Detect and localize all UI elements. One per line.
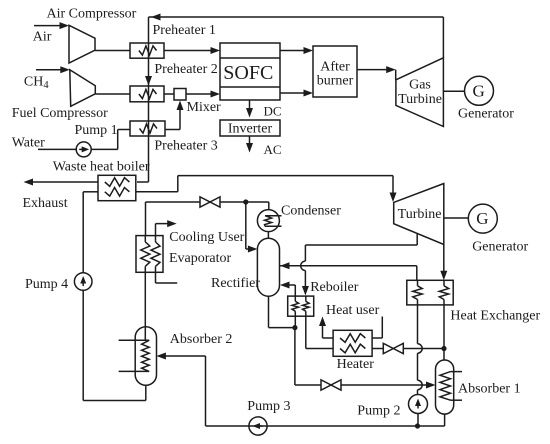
svg-text:Pump 1: Pump 1: [75, 123, 118, 138]
svg-text:Exhaust: Exhaust: [23, 196, 68, 211]
svg-text:burner: burner: [317, 74, 354, 89]
svg-text:Generator: Generator: [458, 106, 514, 121]
svg-text:G: G: [476, 209, 488, 228]
svg-text:Generator: Generator: [472, 240, 528, 255]
svg-text:Pump 2: Pump 2: [357, 404, 400, 419]
svg-text:Reboiler: Reboiler: [310, 280, 359, 295]
svg-text:Pump 3: Pump 3: [247, 399, 290, 414]
svg-text:Preheater 3: Preheater 3: [154, 139, 217, 154]
svg-text:DC: DC: [264, 104, 282, 119]
svg-text:After: After: [320, 60, 350, 75]
svg-text:Heat Exchanger: Heat Exchanger: [450, 309, 540, 324]
svg-text:Heater: Heater: [337, 357, 375, 372]
svg-text:Gas: Gas: [409, 78, 431, 93]
svg-text:Water: Water: [12, 135, 45, 150]
svg-text:Condenser: Condenser: [281, 204, 341, 219]
svg-text:Inverter: Inverter: [228, 122, 273, 137]
svg-text:Turbine: Turbine: [398, 92, 442, 107]
svg-text:Preheater 2: Preheater 2: [154, 62, 217, 77]
svg-text:Air Compressor: Air Compressor: [47, 7, 137, 22]
svg-text:G: G: [472, 81, 484, 100]
svg-text:Heat user: Heat user: [326, 303, 380, 318]
svg-text:Turbine: Turbine: [398, 207, 442, 222]
svg-text:Preheater 1: Preheater 1: [153, 23, 216, 38]
svg-text:Cooling User: Cooling User: [169, 230, 244, 245]
svg-text:AC: AC: [264, 142, 282, 157]
svg-text:Evaporator: Evaporator: [169, 251, 232, 266]
svg-text:Pump 4: Pump 4: [25, 277, 68, 292]
svg-text:Rectifier: Rectifier: [211, 276, 260, 291]
svg-text:Absorber 2: Absorber 2: [170, 332, 233, 347]
svg-text:Air: Air: [33, 30, 52, 45]
svg-text:Waste heat boiler: Waste heat boiler: [53, 159, 150, 174]
svg-text:Mixer: Mixer: [187, 100, 222, 115]
svg-text:Fuel Compressor: Fuel Compressor: [12, 106, 108, 121]
svg-text:SOFC: SOFC: [223, 62, 273, 84]
svg-text:Absorber 1: Absorber 1: [458, 381, 521, 396]
